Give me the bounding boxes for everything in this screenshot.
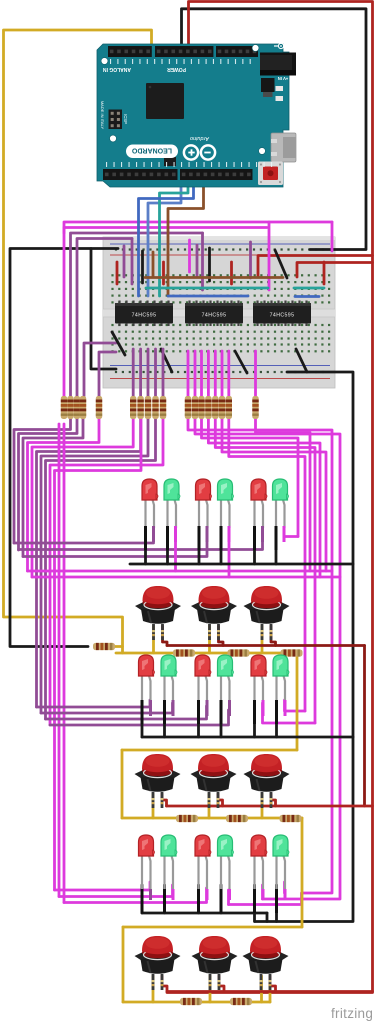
svg-text:POWER: POWER xyxy=(167,66,186,72)
svg-text:MADE IN ITALY: MADE IN ITALY xyxy=(100,101,105,130)
svg-text:Arduino: Arduino xyxy=(190,135,210,141)
svg-text:74HC595: 74HC595 xyxy=(270,313,295,319)
svg-text:+V IN: +V IN xyxy=(278,76,289,81)
svg-text:74HC595: 74HC595 xyxy=(132,313,157,319)
svg-text:fritzing: fritzing xyxy=(331,1006,373,1021)
svg-text:74HC595: 74HC595 xyxy=(202,313,227,319)
svg-text:ICSP: ICSP xyxy=(123,114,128,124)
svg-text:ANALOG IN: ANALOG IN xyxy=(103,66,131,72)
svg-text:LEONARDO: LEONARDO xyxy=(131,146,172,153)
